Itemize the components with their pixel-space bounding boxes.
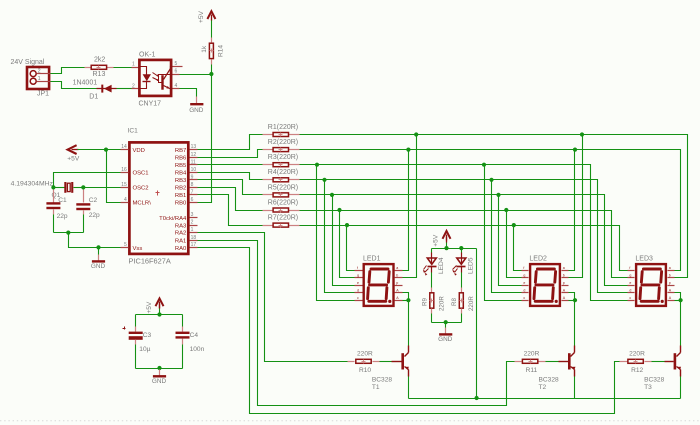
svg-text:MCLR\: MCLR\ bbox=[133, 201, 152, 207]
wire riser R4 to LED1 bbox=[325, 180, 355, 293]
wire riser R2 to LED2 pin a bbox=[569, 150, 575, 271]
svg-text:RB1: RB1 bbox=[175, 193, 186, 199]
wire riser R1 to LED1 pin b bbox=[403, 135, 417, 278]
svg-text:C2: C2 bbox=[89, 197, 98, 204]
svg-text:220R: 220R bbox=[438, 296, 445, 311]
junction LED2 common bbox=[573, 298, 577, 302]
IC right pin stubs bbox=[190, 149, 198, 151]
svg-text:c: c bbox=[357, 296, 359, 300]
display LED2 digit bbox=[537, 268, 554, 271]
svg-text:RA3: RA3 bbox=[175, 223, 187, 229]
svg-text:220R: 220R bbox=[524, 350, 540, 357]
svg-text:5: 5 bbox=[175, 61, 178, 67]
wire net R1 row bbox=[300, 135, 688, 278]
svg-text:R3(220R): R3(220R) bbox=[268, 154, 298, 161]
wire net R2 row bbox=[300, 150, 681, 271]
svg-text:OSC1: OSC1 bbox=[133, 171, 149, 177]
svg-text:R1(220R): R1(220R) bbox=[268, 124, 298, 131]
wire net R7 row bbox=[300, 226, 628, 271]
wire T1 collector bbox=[408, 301, 410, 346]
wire riser R6 to LED1 bbox=[340, 211, 355, 278]
svg-text:10µ: 10µ bbox=[139, 346, 150, 353]
wire T1 emitter bbox=[408, 377, 410, 399]
wire OSC2 bbox=[84, 187, 121, 189]
svg-text:100n: 100n bbox=[190, 346, 205, 353]
svg-text:R4(220R): R4(220R) bbox=[268, 169, 298, 176]
display LED3 digit bbox=[643, 268, 660, 271]
supply +5V colon bbox=[443, 231, 451, 239]
svg-text:9: 9 bbox=[191, 174, 194, 180]
svg-text:OK-1: OK-1 bbox=[139, 51, 155, 58]
wire riser R7 to LED2 bbox=[514, 226, 522, 271]
svg-text:f: f bbox=[523, 266, 524, 270]
resistor R7 220R bbox=[263, 225, 273, 227]
wire riser R1 to LED2 pin b bbox=[569, 135, 583, 278]
display LED2 box bbox=[530, 264, 560, 306]
junction colon supply bbox=[444, 246, 448, 250]
svg-text:6: 6 bbox=[175, 69, 178, 75]
wire decoupling bottom bbox=[136, 368, 183, 370]
svg-text:1k: 1k bbox=[201, 45, 208, 53]
svg-text:1: 1 bbox=[191, 227, 194, 233]
ground GND opto bbox=[196, 97, 198, 105]
wire RB1 to R7 bbox=[198, 195, 263, 226]
svg-text:15: 15 bbox=[121, 182, 127, 188]
svg-text:D1: D1 bbox=[89, 93, 98, 100]
svg-text:T0cki/RA4: T0cki/RA4 bbox=[159, 216, 187, 222]
svg-text:22p: 22p bbox=[57, 213, 68, 220]
junction R6-LED1 bbox=[337, 208, 341, 212]
display LED3 box bbox=[636, 264, 666, 306]
wire RA0 rail to R12 bbox=[198, 248, 621, 414]
svg-text:LED4: LED4 bbox=[438, 257, 445, 274]
display LED1 box bbox=[364, 264, 394, 306]
svg-text:C1: C1 bbox=[58, 197, 67, 204]
svg-text:R13: R13 bbox=[93, 71, 106, 78]
wire OSC1 bbox=[54, 173, 121, 188]
supply +5V decoupling bbox=[156, 298, 164, 306]
display LED3 pin stubs bbox=[628, 270, 635, 272]
wire opto junction to RB0 bbox=[198, 75, 212, 203]
svg-text:2k2: 2k2 bbox=[94, 57, 105, 64]
wire riser R4 to LED2 bbox=[492, 180, 522, 293]
wire riser R7 to LED1 bbox=[347, 226, 355, 271]
svg-text:R11: R11 bbox=[526, 367, 538, 374]
junction crystal left bbox=[51, 185, 55, 189]
svg-text:JP1: JP1 bbox=[37, 91, 49, 98]
wire RB6 to R2 bbox=[198, 150, 263, 158]
junction Vss GND bbox=[96, 245, 100, 249]
junction LED1 common bbox=[406, 298, 410, 302]
resistor R14 1k bbox=[211, 65, 213, 75]
IC left pin stubs bbox=[121, 149, 129, 151]
junction caps bbox=[66, 231, 70, 235]
supply +5V top bbox=[207, 11, 215, 19]
svg-text:e: e bbox=[629, 281, 631, 285]
supply +5V arrow VDD bbox=[68, 145, 77, 154]
svg-text:d: d bbox=[523, 289, 525, 293]
svg-text:c: c bbox=[629, 296, 631, 300]
svg-text:R12: R12 bbox=[631, 367, 643, 374]
wire net R6 row bbox=[300, 211, 628, 278]
junction rail feed bbox=[475, 396, 479, 400]
junction R5-LED2 bbox=[496, 193, 500, 197]
svg-text:LED5: LED5 bbox=[467, 257, 474, 274]
svg-text:e: e bbox=[523, 281, 525, 285]
svg-text:220R: 220R bbox=[468, 296, 475, 311]
svg-text:RB2: RB2 bbox=[175, 186, 186, 192]
svg-text:p: p bbox=[669, 281, 671, 285]
svg-text:a: a bbox=[563, 266, 565, 270]
wire T3 collector bbox=[680, 301, 682, 346]
svg-text:4.194304MHz: 4.194304MHz bbox=[11, 180, 54, 187]
wire T2 emitter bbox=[574, 377, 576, 399]
svg-text:R7(220R): R7(220R) bbox=[268, 215, 298, 222]
wire LED1 common pins bbox=[403, 293, 409, 301]
svg-text:24V Signal: 24V Signal bbox=[11, 59, 45, 66]
svg-text:220R: 220R bbox=[357, 350, 373, 357]
resistor R2 220R bbox=[263, 149, 273, 151]
svg-text:RA1: RA1 bbox=[175, 238, 186, 244]
svg-text:b: b bbox=[669, 274, 671, 278]
wire emitter rail +5V bbox=[409, 398, 681, 400]
junction decoupling bottom bbox=[157, 366, 161, 370]
svg-text:e: e bbox=[357, 281, 359, 285]
svg-text:LED3: LED3 bbox=[635, 256, 653, 263]
wire RB7 to R1 bbox=[198, 135, 263, 150]
svg-text:g: g bbox=[523, 274, 525, 278]
resistor R6 220R bbox=[263, 210, 273, 212]
wire JP1 pin1 to D1 bbox=[51, 82, 97, 89]
wire OK1 pin4 to GND bbox=[180, 89, 197, 97]
wire riser R3 to LED2 bbox=[485, 165, 522, 301]
svg-text:IC1: IC1 bbox=[128, 128, 139, 135]
svg-text:14: 14 bbox=[121, 144, 127, 150]
junction LED5 branch bbox=[459, 246, 463, 250]
svg-text:2: 2 bbox=[38, 69, 41, 75]
wire riser R6 to LED2 bbox=[507, 211, 522, 278]
wire RB3 to R5 bbox=[198, 180, 263, 195]
svg-text:GND: GND bbox=[152, 378, 167, 385]
wire decoupling top bbox=[136, 314, 183, 316]
svg-text:R10: R10 bbox=[359, 367, 371, 374]
capacitor C4 100n bbox=[182, 315, 184, 327]
svg-text:10: 10 bbox=[191, 167, 197, 173]
wire MCLR pullup bbox=[107, 150, 121, 203]
junction R3-LED2 bbox=[482, 163, 486, 167]
svg-text:CNY17: CNY17 bbox=[139, 101, 162, 108]
svg-text:16: 16 bbox=[121, 167, 127, 173]
wire R12 to T3 base bbox=[652, 361, 665, 363]
transistor T1 BC328 bbox=[392, 361, 402, 363]
svg-text:+5V: +5V bbox=[198, 10, 205, 23]
svg-text:g: g bbox=[629, 274, 631, 278]
junction R1-LED2 bbox=[580, 132, 584, 136]
svg-text:RB7: RB7 bbox=[175, 148, 186, 154]
junction R2-LED2 bbox=[573, 148, 577, 152]
svg-text:11: 11 bbox=[191, 159, 196, 165]
svg-text:GND: GND bbox=[438, 336, 453, 343]
svg-text:+5V: +5V bbox=[67, 156, 80, 163]
ground GND Vss bbox=[98, 248, 100, 255]
svg-text:C3: C3 bbox=[143, 332, 152, 339]
display LED1 pin stubs bbox=[355, 270, 363, 272]
svg-text:6: 6 bbox=[191, 197, 194, 203]
resistor R13 bbox=[85, 67, 92, 69]
svg-text:1: 1 bbox=[132, 61, 135, 67]
wire LED3 common pins bbox=[675, 293, 681, 301]
capacitor C2 22p bbox=[83, 190, 85, 203]
led LED5 bbox=[461, 249, 463, 253]
resistor R5 220R bbox=[263, 194, 273, 196]
junction crystal right bbox=[81, 185, 85, 189]
resistor R1 220R bbox=[263, 134, 273, 136]
svg-text:220R: 220R bbox=[629, 350, 645, 357]
svg-text:RB4: RB4 bbox=[175, 171, 187, 177]
svg-text:R2(220R): R2(220R) bbox=[268, 139, 298, 146]
resistor R8 220R bbox=[461, 273, 463, 288]
led LED4 bbox=[431, 249, 433, 253]
resistor R10 220R bbox=[348, 361, 355, 363]
wire riser R2 to LED1 pin a bbox=[403, 150, 409, 271]
junction R4-LED1 bbox=[322, 178, 326, 182]
svg-text:C4: C4 bbox=[190, 332, 199, 339]
ground GND colon bbox=[445, 323, 447, 328]
svg-text:LED1: LED1 bbox=[363, 256, 381, 263]
svg-text:Vss: Vss bbox=[133, 246, 143, 252]
svg-text:1: 1 bbox=[38, 76, 41, 82]
IC U1 PIC16F627A box bbox=[129, 142, 188, 254]
resistor R4 220R bbox=[263, 179, 273, 181]
transistor T3 BC328 bbox=[665, 361, 674, 363]
svg-text:RA0: RA0 bbox=[175, 246, 187, 252]
svg-text:4: 4 bbox=[175, 83, 178, 89]
wire colon +5V node bbox=[432, 248, 477, 250]
junction R7-LED1 bbox=[345, 223, 349, 227]
OK1 coupling arrows bbox=[153, 73, 159, 77]
wire colon cathodes bbox=[432, 322, 462, 324]
svg-text:+5V: +5V bbox=[433, 234, 440, 247]
crystal Q1 4.194304MHz bbox=[54, 187, 65, 189]
svg-text:RB0: RB0 bbox=[175, 201, 187, 207]
ground GND decoupling bbox=[159, 369, 161, 370]
wire RA1 rail to R11 bbox=[198, 241, 516, 406]
wire RB4 to R4 bbox=[198, 173, 263, 180]
wire R11 to T2 base bbox=[546, 361, 559, 363]
svg-text:1N4001: 1N4001 bbox=[73, 80, 98, 87]
junction decoupling top bbox=[157, 312, 161, 316]
svg-text:T2: T2 bbox=[539, 384, 547, 391]
wire R13 to OK1 pin1 bbox=[114, 67, 132, 69]
junction R4-LED2 bbox=[489, 178, 493, 182]
junction opto-R14 bbox=[209, 72, 213, 76]
svg-text:RB5: RB5 bbox=[175, 163, 187, 169]
svg-text:OSC2: OSC2 bbox=[133, 186, 149, 192]
junction VDD-MCLR bbox=[104, 148, 108, 152]
diode D1 1N4001 bbox=[97, 88, 117, 90]
resistor R9 220R bbox=[431, 273, 433, 288]
svg-text:VDD: VDD bbox=[133, 148, 145, 154]
resistor R3 220R bbox=[263, 164, 273, 166]
junction colon gnd bbox=[444, 320, 448, 324]
wire T3 emitter bbox=[680, 377, 682, 399]
svg-text:RB6: RB6 bbox=[175, 155, 187, 161]
wire R10 to T1 base bbox=[380, 361, 392, 363]
wire riser R5 to LED1 bbox=[333, 195, 355, 286]
display LED1 digit bbox=[371, 268, 388, 271]
frame border bottom bbox=[0, 420, 700, 422]
wire net R4 row bbox=[300, 180, 628, 293]
svg-text:12: 12 bbox=[191, 152, 197, 158]
svg-text:R9: R9 bbox=[421, 298, 428, 306]
resistor R11 220R bbox=[515, 361, 522, 363]
connector JP1 bbox=[27, 67, 49, 89]
optocoupler OK1 CNY17 bbox=[139, 60, 171, 96]
wire riser R3 to LED1 bbox=[317, 165, 355, 301]
svg-text:BC328: BC328 bbox=[372, 376, 392, 383]
svg-text:R5(220R): R5(220R) bbox=[268, 184, 298, 191]
wire colon supply to rail bbox=[476, 249, 478, 399]
wire JP1 pin2 to R13 bbox=[51, 68, 85, 74]
svg-text:5: 5 bbox=[124, 242, 127, 248]
svg-text:f: f bbox=[629, 266, 630, 270]
junction R6-LED2 bbox=[504, 208, 508, 212]
svg-text:a: a bbox=[396, 266, 398, 270]
wire caps common bbox=[54, 232, 84, 234]
junction R7-LED2 bbox=[512, 223, 516, 227]
svg-text:4: 4 bbox=[124, 197, 127, 203]
wire RB5 to R3 bbox=[198, 164, 263, 166]
IC origin mark bbox=[156, 192, 160, 194]
junction LED3 common bbox=[679, 298, 683, 302]
svg-text:13: 13 bbox=[191, 144, 197, 150]
junction R3-LED1 bbox=[315, 163, 319, 167]
svg-text:GND: GND bbox=[189, 107, 204, 114]
svg-text:LED2: LED2 bbox=[529, 256, 547, 263]
OK1 internal LED bbox=[139, 67, 147, 75]
svg-text:2: 2 bbox=[132, 83, 135, 89]
transistor T2 BC328 bbox=[559, 361, 569, 363]
svg-text:17: 17 bbox=[191, 242, 197, 248]
wire riser R5 to LED2 bbox=[499, 195, 522, 286]
svg-text:BC328: BC328 bbox=[644, 376, 664, 383]
svg-text:PIC16F627A: PIC16F627A bbox=[129, 257, 171, 266]
wire to Vss bbox=[69, 233, 121, 248]
svg-text:RB3: RB3 bbox=[175, 178, 187, 184]
wire RB2 to R6 bbox=[198, 188, 263, 211]
svg-text:RA2: RA2 bbox=[175, 231, 186, 237]
wire +5V to VDD pin14 bbox=[78, 149, 121, 151]
svg-text:T1: T1 bbox=[372, 384, 380, 391]
display LED2 pin stubs bbox=[522, 270, 529, 272]
svg-text:GND: GND bbox=[91, 263, 106, 270]
wire LED2 common pins bbox=[569, 293, 575, 301]
svg-text:b: b bbox=[563, 274, 565, 278]
svg-text:d: d bbox=[629, 289, 631, 293]
svg-text:2: 2 bbox=[191, 220, 194, 226]
junction R5-LED1 bbox=[330, 193, 334, 197]
wire net R5 row bbox=[300, 195, 628, 286]
wire RA2 to R10 bbox=[198, 233, 349, 362]
svg-text:p: p bbox=[396, 281, 398, 285]
junction R2-LED1 bbox=[406, 148, 410, 152]
svg-text:d: d bbox=[357, 289, 359, 293]
svg-text:8: 8 bbox=[191, 182, 194, 188]
capacitor C3 10u bbox=[135, 315, 137, 327]
svg-text:a: a bbox=[669, 266, 671, 270]
capacitor C1 22p bbox=[53, 190, 55, 203]
svg-text:T3: T3 bbox=[644, 384, 652, 391]
svg-text:22p: 22p bbox=[89, 212, 100, 219]
OK1 phototransistor bbox=[161, 75, 163, 90]
resistor R12 220R bbox=[620, 361, 628, 363]
svg-text:7: 7 bbox=[191, 190, 194, 196]
svg-text:c: c bbox=[523, 296, 525, 300]
svg-text:b: b bbox=[396, 274, 398, 278]
svg-text:BC328: BC328 bbox=[539, 376, 559, 383]
junction R1-LED1 bbox=[414, 132, 418, 136]
svg-text:R8: R8 bbox=[451, 298, 458, 306]
svg-text:R14: R14 bbox=[218, 45, 225, 57]
wire T2 collector bbox=[574, 301, 576, 346]
svg-text:p: p bbox=[563, 281, 565, 285]
wire net R3 row bbox=[300, 165, 628, 301]
svg-text:R6(220R): R6(220R) bbox=[268, 199, 298, 206]
svg-text:3: 3 bbox=[191, 212, 194, 218]
wire D1 to OK1 pin2 bbox=[117, 88, 132, 90]
wire OK1 pin6 to R14 junction bbox=[180, 74, 212, 76]
svg-text:g: g bbox=[357, 274, 359, 278]
svg-text:f: f bbox=[357, 266, 358, 270]
svg-text:18: 18 bbox=[191, 235, 197, 241]
svg-text:+5V: +5V bbox=[146, 301, 153, 314]
